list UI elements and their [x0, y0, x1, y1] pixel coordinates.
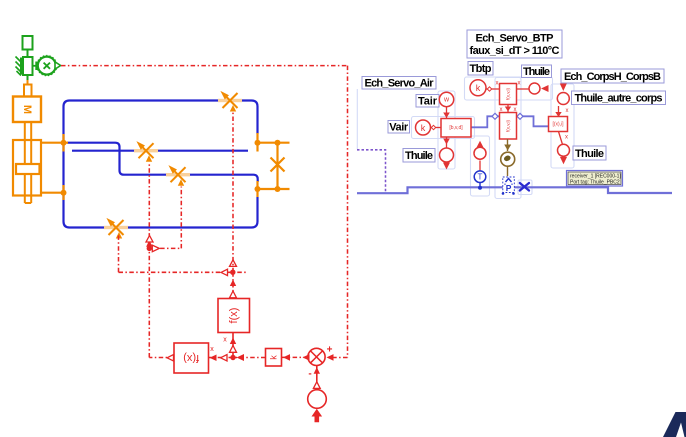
port Thuile top circle: [529, 83, 540, 94]
node red junction y249: [147, 246, 152, 251]
wire red BTP to mid block: [507, 105, 509, 113]
port triangle fx1 bottom: [230, 346, 237, 353]
valve V1 variable orifice on top line: [218, 91, 242, 112]
arrow into k box: [283, 354, 290, 361]
wire red k to junction: [233, 357, 266, 359]
svg-text:faux_si_dT > 110°C: faux_si_dT > 110°C: [470, 45, 560, 57]
motor green circle with x: [38, 57, 56, 75]
port triangle up under bottom line: [146, 236, 153, 243]
svg-text:Port tag: Thuile_PBC2: Port tag: Thuile_PBC2: [570, 180, 620, 186]
wire blue right upper vertical: [256, 107, 258, 135]
svg-text:x: x: [496, 81, 499, 87]
node junction dot right top left: [255, 140, 261, 146]
wire red y271 horizontal: [119, 271, 247, 273]
rod between M and cylinder: [25, 122, 31, 203]
wire red top signal line: [61, 65, 348, 67]
fixed orifice right column: [271, 158, 285, 172]
wire blue left vertical: [64, 101, 70, 222]
node junction dot right bottom right: [275, 186, 281, 192]
exchanger air block: [441, 119, 471, 138]
port circle right top: [557, 93, 569, 105]
svg-text:x: x: [210, 346, 214, 353]
wire green down link: [27, 75, 29, 80]
wire red V2 control vertical: [148, 162, 150, 248]
exchanger mid block: [500, 113, 517, 140]
node junction dot right bottom left: [255, 186, 261, 192]
wire blue line A (cylinder top port): [67, 143, 258, 182]
thermal mass brown circle: [501, 152, 515, 166]
node red junction y271: [230, 270, 235, 275]
svg-text:x: x: [518, 81, 521, 87]
highlight outline left column group: [357, 77, 574, 199]
label Thuile left box: [403, 149, 435, 163]
svg-text:Vair: Vair: [389, 122, 409, 134]
wire brown to P sensor: [507, 166, 509, 176]
arrow up above red circle: [477, 141, 484, 148]
arrow brown down: [504, 145, 511, 151]
wire orange transition left vertical lower: [62, 185, 64, 200]
svg-text:Tair: Tair: [418, 96, 438, 108]
svg-text:k: k: [421, 123, 426, 133]
label Ech_Servo_BTP box: [467, 30, 562, 58]
source k1 circle Tbtp: [470, 80, 486, 96]
piston: [16, 164, 40, 174]
wire orange pedestal link: [27, 80, 29, 85]
wire red summer to k: [282, 356, 308, 358]
wire red BTP to thuile circle: [517, 88, 530, 90]
node violet diamond left: [492, 113, 498, 119]
svg-text:[b,v,d]: [b,v,d]: [449, 125, 463, 131]
wire blue T to main line: [479, 183, 481, 188]
wire red fx2 left: [149, 357, 174, 359]
wire red w down to air block: [446, 107, 448, 119]
cylinder body: [13, 140, 41, 196]
motor shaft tick: [35, 62, 38, 71]
wire orange cylinder top port stub: [41, 142, 68, 144]
svg-text:f(x,v,i): f(x,v,i): [506, 88, 511, 100]
valve V2 variable orifice on line B: [134, 141, 158, 162]
sensor P box dashed: [503, 177, 515, 193]
gain k box: [266, 349, 282, 367]
label Ech_Servo_Air box: [362, 77, 436, 90]
arrow up at junction y249: [146, 240, 152, 247]
wire green link to motor: [33, 65, 37, 67]
arrow into thuile top: [541, 85, 549, 92]
svg-text:Ech_Servo_Air: Ech_Servo_Air: [365, 78, 435, 90]
label receiver box: [567, 171, 623, 187]
label Tair box: [416, 95, 439, 108]
label Vair box: [388, 121, 410, 134]
wire red air block down: [446, 137, 448, 148]
wire red right vertical: [347, 66, 349, 358]
svg-text:x: x: [566, 108, 569, 114]
wire red V1 control vertical: [232, 112, 234, 272]
svg-text:w: w: [443, 97, 450, 104]
svg-text:M: M: [21, 105, 33, 114]
summer circle: [308, 348, 325, 365]
port Thuile left circle: [440, 148, 454, 162]
port triangle right on y249: [152, 245, 159, 252]
svg-text:P: P: [506, 183, 512, 193]
svg-text:Thuile: Thuile: [405, 150, 433, 162]
wire red source to summer: [316, 365, 318, 389]
port triangle left on y271: [221, 269, 228, 275]
valve V5 variable orifice on bottom line: [104, 218, 128, 239]
wire red y249 horizontal: [149, 247, 181, 249]
svg-text:f(x,v,i): f(x,v,i): [506, 120, 511, 132]
port triangle above source: [313, 382, 320, 389]
signal bowtie x: [520, 183, 529, 191]
port triangle fx2 left out: [167, 355, 174, 361]
arrow down right column top: [560, 84, 567, 92]
node junction dot right top right: [275, 140, 281, 146]
sensor T circle: [474, 171, 486, 183]
label Thuile_autre_corps box: [572, 91, 666, 105]
function fx1 box: [218, 299, 250, 333]
wire red V5 control vertical: [118, 234, 120, 272]
node diamond k1 out: [487, 87, 491, 91]
arrow into summer right: [327, 354, 334, 361]
port circle right bottom: [558, 144, 570, 156]
function fx2 box: [174, 343, 209, 373]
exchanger right block: [549, 117, 568, 132]
source k2 circle Vair: [416, 120, 431, 135]
pipe violet main line: [357, 187, 672, 193]
wire red k2 to air block: [431, 127, 442, 129]
svg-text:f(x): f(x): [228, 308, 240, 324]
arrow down into air block: [443, 113, 450, 119]
wire orange orifice bottom row: [258, 188, 290, 190]
wire red into summer: [327, 357, 348, 359]
wire red right circle to block: [558, 106, 560, 117]
node junction dot cylinder top: [61, 140, 67, 146]
svg-text:T: T: [478, 173, 483, 182]
rod orange pedestal: [24, 85, 32, 97]
wire orange cylinder bottom port stub: [41, 192, 64, 194]
wire red left vertical riser: [148, 248, 150, 357]
label Thuile right box: [573, 146, 606, 160]
wire red circle to T sensor: [479, 161, 481, 171]
svg-text:Thuile: Thuile: [523, 66, 550, 78]
port triangle up above junction y271: [230, 260, 237, 267]
svg-text:Thuile: Thuile: [575, 148, 604, 160]
logo navy A: [663, 412, 686, 437]
label Ech_CorpsH_CorpsB box: [561, 69, 664, 83]
pipe violet mid block to right block: [517, 116, 549, 126]
wire orange transition right vertical upper: [256, 133, 258, 152]
label Thuile top box: [522, 65, 552, 78]
node violet diamond right: [517, 113, 523, 119]
svg-text:Thuile_autre_corps: Thuile_autre_corps: [575, 93, 663, 105]
wire red V3 control vertical: [180, 187, 182, 249]
wire red fx1 bottom: [232, 333, 234, 358]
arrow down below thuile left: [443, 163, 450, 170]
wire blue line B (dead-end spool line): [72, 150, 248, 152]
node diamond k2 out: [431, 125, 435, 129]
wire red right block down: [559, 132, 563, 145]
port triangle green output: [55, 62, 61, 69]
valve V3 variable orifice on line A: [166, 165, 190, 186]
svg-text:k: k: [476, 83, 481, 93]
svg-text:Ech_Servo_BTP: Ech_Servo_BTP: [476, 33, 554, 45]
wire orange transition right vertical lower: [256, 181, 258, 197]
svg-text:x: x: [565, 135, 568, 141]
wire red junction to fx1: [232, 272, 234, 298]
wire brown mid block down: [507, 139, 509, 151]
exchanger BTP block: [500, 84, 517, 105]
svg-text:Tbtp: Tbtp: [470, 63, 492, 75]
wire orange transition left vertical upper: [62, 134, 64, 152]
svg-text:x: x: [223, 337, 227, 344]
ground wall hatched: [16, 57, 24, 76]
svg-text:Ech_CorpsH_CorpsB: Ech_CorpsH_CorpsB: [564, 71, 661, 83]
svg-text:[(x),i]: [(x),i]: [552, 121, 564, 127]
wire orange orifice top row: [258, 142, 290, 144]
wire red junction to fx2: [209, 357, 234, 359]
port triangle fx1 top: [230, 291, 237, 298]
label Tbtp box: [468, 62, 493, 76]
wire blue bottom line: [64, 197, 258, 228]
wire orange orifice vertical: [276, 143, 278, 189]
svg-text:f(x): f(x): [183, 352, 199, 364]
svg-text:+: +: [327, 345, 333, 356]
wire red k1 to BTP block: [487, 88, 500, 90]
source input thick arrow: [312, 409, 323, 423]
arrow on row mid: [237, 354, 245, 361]
arrow up into fx1 bottom: [230, 338, 236, 345]
source w circle Tair: [439, 92, 453, 106]
source circle: [308, 390, 327, 409]
source circle above T: [474, 147, 486, 159]
wire blue top line: [70, 101, 258, 107]
arrow up fx1 output: [230, 280, 236, 287]
pipe violet dashed L branch: [357, 150, 386, 193]
pipe violet air block to mid block: [471, 116, 499, 127]
node red junction bottom: [230, 355, 235, 360]
arrow down below right bottom circle: [560, 157, 567, 164]
wire green spring link: [27, 50, 29, 58]
spring green top: [23, 36, 33, 50]
port triangle into fx2 right: [210, 355, 217, 362]
svg-text:k: k: [269, 355, 279, 360]
damper green body: [23, 57, 33, 75]
arrow down between blocks: [505, 107, 511, 112]
svg-text:-: -: [308, 369, 311, 380]
mass M box: [13, 97, 41, 123]
node junction dot cylinder bottom: [61, 190, 67, 196]
